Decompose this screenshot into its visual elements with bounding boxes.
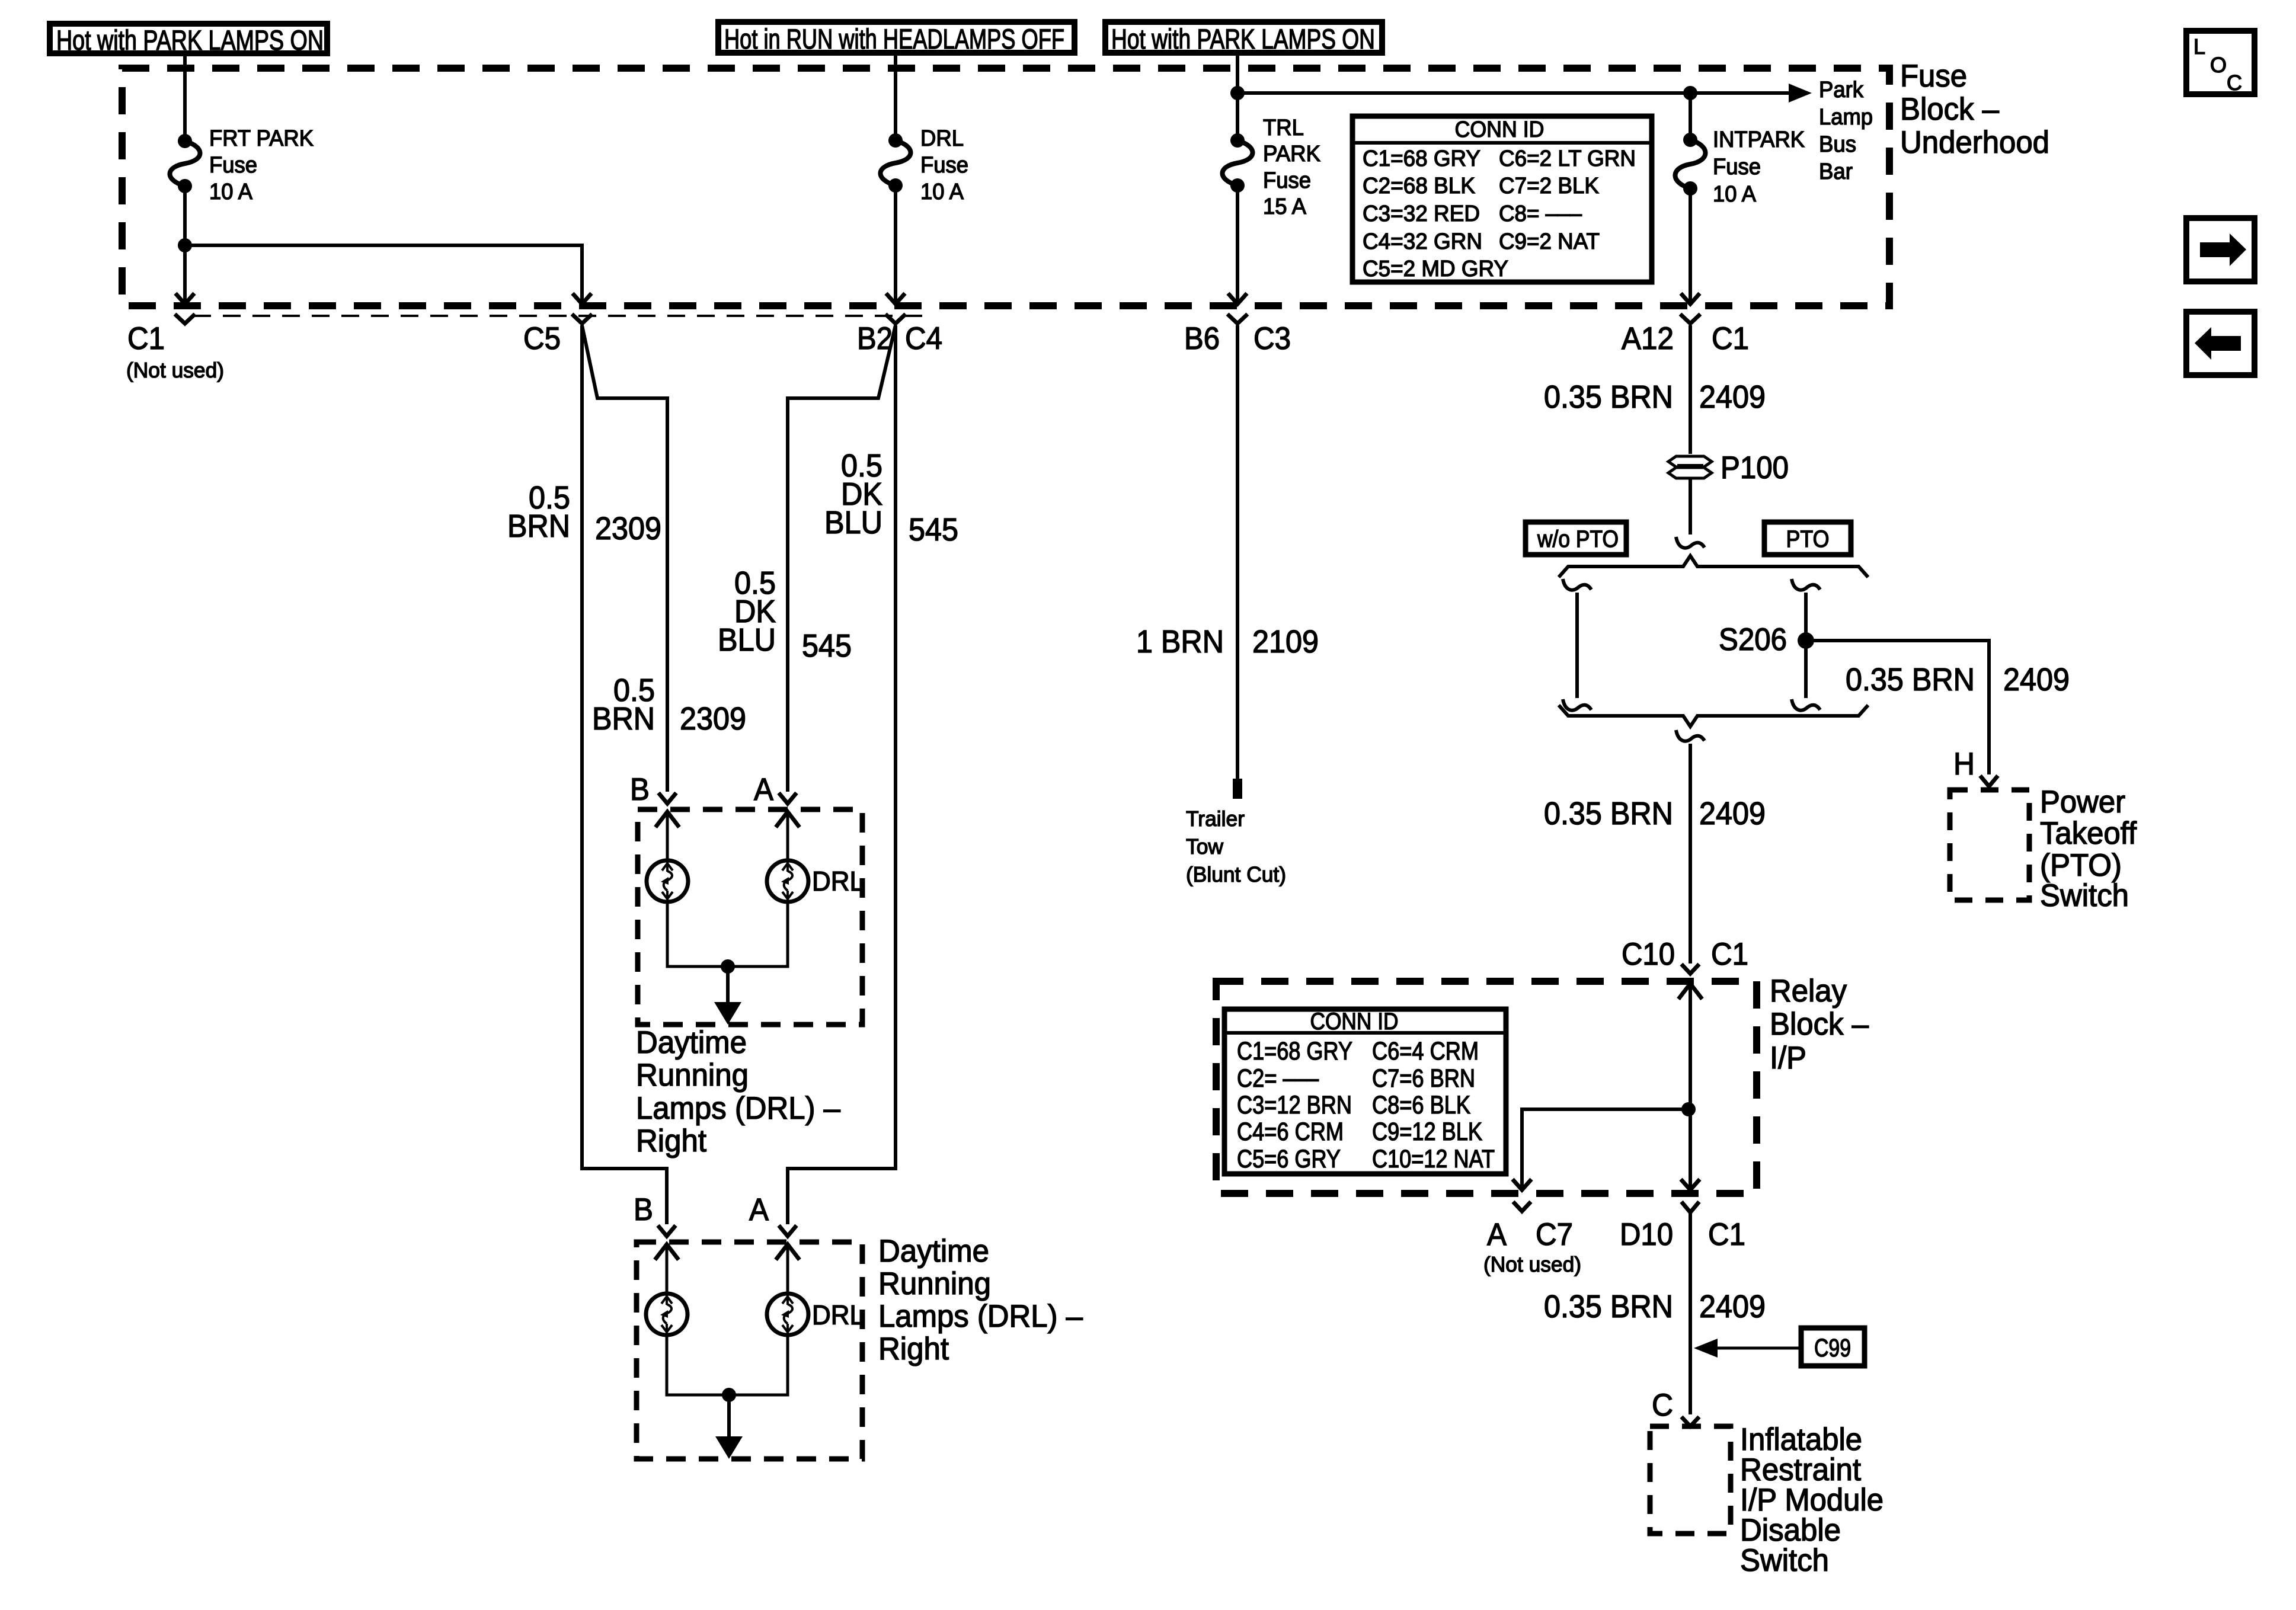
wire break hook above option brace <box>1676 537 1705 548</box>
svg-text:C2= –––: C2= ––– <box>1237 1064 1319 1093</box>
wire: relay block internal feed from C10 <box>1678 984 1702 999</box>
fuse block - underhood dashed outline <box>122 68 1889 306</box>
svg-text:0.35 BRN: 0.35 BRN <box>1846 662 1975 697</box>
lamp bulb A / DRL (upper unit) <box>767 860 808 902</box>
svg-text:1 BRN: 1 BRN <box>1136 624 1224 660</box>
svg-text:Switch: Switch <box>2040 878 2129 913</box>
ground arrow (lower DRL) <box>727 1395 731 1439</box>
svg-text:C8=6 BLK: C8=6 BLK <box>1372 1091 1470 1119</box>
svg-text:C1=68 GRY: C1=68 GRY <box>1363 146 1480 171</box>
junction: park lamp bus bar tap <box>1230 86 1245 100</box>
junction: branch to C5 <box>178 238 192 252</box>
wire: bus bar down to INTPARK fuse <box>1689 93 1692 140</box>
svg-text:2409: 2409 <box>2003 662 2070 697</box>
fuse: TRL PARK Fuse 15 A <box>1230 133 1245 148</box>
svg-text:2409: 2409 <box>1699 796 1766 831</box>
svg-text:CONN ID: CONN ID <box>1310 1009 1399 1035</box>
wire: DRL fuse output down to C4 <box>894 185 897 303</box>
connector C1 at fuse block edge (not used) <box>175 293 194 304</box>
blunt cut end cap <box>1233 779 1242 799</box>
svg-text:C4=6 CRM: C4=6 CRM <box>1237 1118 1344 1146</box>
svg-text:Fuse: Fuse <box>1263 168 1311 193</box>
svg-text:2309: 2309 <box>595 511 661 546</box>
svg-text:BRN: BRN <box>592 701 655 737</box>
svg-text:PARK: PARK <box>1263 142 1320 167</box>
harness connector thin dashed line below fuse block <box>193 315 923 317</box>
wire: C4 long vertical (0.5 DK BLU 545) down right side <box>788 325 896 1224</box>
svg-text:10 A: 10 A <box>920 180 964 204</box>
svg-text:C3=12 BRN: C3=12 BRN <box>1237 1091 1352 1119</box>
splice S206 <box>1798 632 1814 649</box>
svg-text:C7: C7 <box>1536 1217 1573 1252</box>
svg-text:C1: C1 <box>1711 937 1748 972</box>
svg-text:0.35 BRN: 0.35 BRN <box>1544 1289 1673 1324</box>
wire: park lamp bus bar <box>1237 91 1792 95</box>
svg-text:Bus: Bus <box>1819 132 1856 157</box>
wire: feed from right Hot box into fuse block <box>1236 53 1239 140</box>
svg-text:DRL: DRL <box>920 126 964 151</box>
wire: TRL PARK fuse output down to C3 <box>1236 185 1239 303</box>
wire: C3 down to trailer tow blunt cut (1 BRN 2109) <box>1236 325 1239 780</box>
PTO branch hook bottom <box>1792 699 1820 710</box>
option merge bottom brace <box>1559 705 1868 726</box>
svg-text:INTPARK: INTPARK <box>1713 127 1805 152</box>
svg-text:0.35 BRN: 0.35 BRN <box>1544 379 1673 415</box>
svg-text:C9=12 BLK: C9=12 BLK <box>1372 1118 1482 1146</box>
svg-text:Fuse: Fuse <box>1713 155 1761 180</box>
svg-text:Daytime: Daytime <box>878 1234 989 1269</box>
wire: feed from Hot in RUN box into fuse block <box>894 53 897 140</box>
wire: lamp returns join (lower DRL) <box>667 1334 788 1395</box>
power feed label box: Hot with PARK LAMPS ON (right) <box>1105 22 1382 53</box>
svg-text:H: H <box>1953 747 1975 782</box>
LOC reference box <box>2186 31 2255 94</box>
svg-text:C5: C5 <box>523 321 561 356</box>
arrow from C99 to wire <box>1716 1347 1801 1350</box>
connector B2/C4 at fuse block edge <box>886 293 905 304</box>
svg-text:B6: B6 <box>1184 321 1220 356</box>
svg-text:10 A: 10 A <box>209 180 253 204</box>
left arrow reference box <box>2186 312 2255 375</box>
wire: PTO branch through S206 <box>1804 593 1808 698</box>
option label box: PTO <box>1764 522 1851 555</box>
svg-text:(Blunt Cut): (Blunt Cut) <box>1186 862 1286 886</box>
svg-text:C6=2 LT GRN: C6=2 LT GRN <box>1499 146 1636 171</box>
lamp bulb B (upper DRL) <box>647 860 688 902</box>
svg-text:Running: Running <box>878 1266 991 1301</box>
in-line connector C99 label box <box>1801 1328 1865 1366</box>
svg-text:A: A <box>749 1192 769 1227</box>
wire: S206 to PTO switch (0.35 BRN 2409) <box>1806 641 1989 774</box>
svg-text:P100: P100 <box>1721 450 1789 485</box>
svg-text:Lamp: Lamp <box>1819 105 1873 130</box>
svg-text:DRL: DRL <box>812 1299 864 1330</box>
arrow to relay bottom edge (D10 branch) <box>1681 1179 1700 1190</box>
wire: w/o PTO branch <box>1575 593 1579 698</box>
svg-text:Power: Power <box>2040 785 2125 820</box>
svg-text:C5=6 GRY: C5=6 GRY <box>1237 1145 1341 1173</box>
svg-text:D10: D10 <box>1620 1217 1673 1252</box>
svg-text:C: C <box>1652 1388 1673 1423</box>
svg-text:C6=4 CRM: C6=4 CRM <box>1372 1037 1479 1065</box>
fuse: DRL Fuse 10 A <box>888 133 903 148</box>
option label box: w/o PTO <box>1526 522 1626 555</box>
daytime running lamps (DRL) right - lower unit dashed box <box>637 1242 862 1459</box>
svg-text:C8= –––: C8= ––– <box>1499 201 1582 226</box>
svg-text:C7=6 BRN: C7=6 BRN <box>1372 1064 1475 1093</box>
wire: D10 down to disable switch (0.35 BRN 2409) <box>1689 1216 1692 1414</box>
wire: lamp returns join (upper DRL) <box>667 901 788 966</box>
svg-text:C3: C3 <box>1253 321 1291 356</box>
svg-text:Hot in RUN with HEADLAMPS OFF: Hot in RUN with HEADLAMPS OFF <box>724 23 1064 55</box>
connector A12/C1 at fuse block edge <box>1681 293 1700 304</box>
svg-text:Block –: Block – <box>1900 92 1999 127</box>
lamp bulb B (lower DRL) <box>646 1294 687 1335</box>
svg-text:DRL: DRL <box>812 866 864 897</box>
svg-text:10 A: 10 A <box>1713 182 1757 207</box>
svg-text:Switch: Switch <box>1740 1543 1829 1578</box>
wire: branch from FRT PARK fuse to C5 <box>185 245 582 303</box>
svg-text:Park: Park <box>1819 78 1864 103</box>
CONN ID table - relay block I/P <box>1224 1009 1506 1174</box>
svg-text:Takeoff: Takeoff <box>2040 816 2137 851</box>
svg-text:2309: 2309 <box>680 701 746 737</box>
svg-text:C2=68 BLK: C2=68 BLK <box>1363 174 1475 199</box>
svg-text:2409: 2409 <box>1699 379 1766 415</box>
junction: lower DRL ground join <box>722 1388 736 1402</box>
arrowhead to Park Lamp Bus Bar <box>1789 84 1812 103</box>
wire: A12 down to P100 (0.35 BRN 2409) <box>1689 329 1692 454</box>
wire: feed from left Hot box into fuse block <box>183 53 187 141</box>
svg-text:Right: Right <box>636 1124 706 1158</box>
svg-text:A12: A12 <box>1622 321 1674 356</box>
wire: internal branch to C7 (not used) <box>1522 1109 1689 1188</box>
CONN ID table - fuse block underhood <box>1352 116 1652 282</box>
svg-text:C1: C1 <box>1708 1217 1745 1252</box>
relay block - I/P dashed outline <box>1216 981 1757 1193</box>
svg-text:Hot with PARK LAMPS ON: Hot with PARK LAMPS ON <box>56 24 324 56</box>
svg-text:C4=32 GRN: C4=32 GRN <box>1363 229 1482 254</box>
svg-text:O: O <box>2210 53 2227 77</box>
svg-text:C7=2 BLK: C7=2 BLK <box>1499 174 1599 199</box>
svg-text:Relay: Relay <box>1770 974 1847 1009</box>
svg-text:(Not used): (Not used) <box>1483 1252 1581 1276</box>
svg-text:Fuse: Fuse <box>1900 59 1967 94</box>
svg-text:C3=32 RED: C3=32 RED <box>1363 201 1480 226</box>
svg-text:15 A: 15 A <box>1263 194 1307 219</box>
inflatable restraint I/P module disable switch dashed box <box>1650 1426 1731 1534</box>
svg-text:Running: Running <box>636 1058 749 1093</box>
arrow to relay bottom edge (C7 branch) <box>1512 1179 1531 1190</box>
svg-text:PTO: PTO <box>1786 526 1830 552</box>
ground arrow (upper DRL) <box>726 966 730 1004</box>
svg-text:Lamps (DRL) –: Lamps (DRL) – <box>636 1091 840 1126</box>
connector A/C7 below relay block (not used) <box>1513 1202 1531 1211</box>
svg-text:545: 545 <box>802 628 852 664</box>
svg-text:2109: 2109 <box>1252 624 1319 660</box>
grommet P100 <box>1668 456 1712 467</box>
svg-text:Trailer: Trailer <box>1186 806 1245 831</box>
svg-text:Tow: Tow <box>1186 834 1224 859</box>
svg-text:Right: Right <box>878 1331 949 1366</box>
svg-text:Block –: Block – <box>1770 1007 1869 1042</box>
svg-text:Bar: Bar <box>1819 159 1853 184</box>
svg-text:0.35 BRN: 0.35 BRN <box>1544 796 1673 831</box>
wire: C5 long vertical (0.5 BRN 2309) down left side <box>582 325 667 1224</box>
wire break hook below merge brace <box>1676 730 1705 741</box>
svg-text:Underhood: Underhood <box>1900 125 2049 160</box>
svg-text:TRL: TRL <box>1263 116 1304 140</box>
svg-text:Fuse: Fuse <box>920 153 968 178</box>
svg-text:545: 545 <box>909 512 958 548</box>
wire: P100 down to option split <box>1689 479 1692 534</box>
svg-text:A: A <box>754 772 774 807</box>
svg-text:C: C <box>2227 71 2242 95</box>
wire: INTPARK fuse output down to C1 <box>1689 188 1692 303</box>
connector D10/C1 below relay block <box>1681 1202 1699 1212</box>
svg-text:(Not used): (Not used) <box>126 358 224 382</box>
svg-text:L: L <box>2193 34 2205 59</box>
svg-text:Lamps (DRL) –: Lamps (DRL) – <box>878 1299 1083 1334</box>
wire: C5 branch to first DRL unit pin B <box>582 325 667 792</box>
option split top brace <box>1559 556 1868 577</box>
svg-text:w/o PTO: w/o PTO <box>1537 526 1619 552</box>
wire: C4 branch to first DRL unit pin A <box>788 325 896 792</box>
fuse: INTPARK Fuse 10 A <box>1683 133 1697 147</box>
svg-text:BRN: BRN <box>507 508 570 544</box>
svg-text:2409: 2409 <box>1699 1289 1766 1324</box>
svg-text:A: A <box>1487 1217 1507 1252</box>
svg-text:C5=2 MD GRY: C5=2 MD GRY <box>1363 257 1508 281</box>
junction: INTPARK tap on bus bar <box>1683 86 1697 100</box>
junction: upper DRL ground join <box>721 959 735 974</box>
svg-text:BLU: BLU <box>718 622 776 658</box>
svg-text:I/P: I/P <box>1770 1041 1806 1076</box>
svg-text:C10=12 NAT: C10=12 NAT <box>1372 1145 1495 1173</box>
wire: FRT PARK fuse output down to C1 <box>183 186 187 303</box>
daytime running lamps (DRL) right - upper unit dashed box <box>638 809 862 1025</box>
svg-text:B: B <box>634 1192 653 1227</box>
w/o PTO branch hook bottom <box>1563 699 1591 710</box>
svg-text:C1=68 GRY: C1=68 GRY <box>1237 1037 1352 1065</box>
svg-text:C9=2 NAT: C9=2 NAT <box>1499 229 1600 254</box>
svg-text:CONN ID: CONN ID <box>1455 117 1544 142</box>
connector B6/C3 at fuse block edge <box>1228 293 1247 304</box>
svg-text:C1: C1 <box>1712 321 1749 356</box>
svg-text:C99: C99 <box>1814 1334 1851 1362</box>
svg-text:B2: B2 <box>857 321 893 356</box>
svg-text:Hot with PARK LAMPS ON: Hot with PARK LAMPS ON <box>1111 23 1375 55</box>
svg-text:Daytime: Daytime <box>636 1025 747 1060</box>
power takeoff (PTO) switch dashed box <box>1950 790 2029 900</box>
fuse: FRT PARK Fuse 10 A <box>178 134 192 148</box>
power feed label box: Hot in RUN with HEADLAMPS OFF <box>718 22 1075 53</box>
svg-text:Fuse: Fuse <box>209 153 257 178</box>
svg-text:C10: C10 <box>1622 937 1675 972</box>
connector C5 at fuse block edge <box>573 293 591 304</box>
PTO branch hook top <box>1792 579 1820 590</box>
svg-text:B: B <box>630 772 650 807</box>
svg-text:C1: C1 <box>127 321 165 356</box>
svg-text:C4: C4 <box>905 321 942 356</box>
lamp bulb A / DRL (lower unit) <box>767 1294 808 1335</box>
svg-text:BLU: BLU <box>824 505 882 540</box>
w/o PTO branch hook top <box>1563 579 1591 590</box>
svg-text:S206: S206 <box>1719 622 1787 657</box>
power feed label box: Hot with PARK LAMPS ON (left) <box>50 24 327 53</box>
svg-text:FRT PARK: FRT PARK <box>209 126 314 151</box>
right arrow reference box <box>2186 218 2255 281</box>
wire: option merge down to relay block C10 (0.35 BRN 2409) <box>1689 744 1692 964</box>
junction inside relay block <box>1681 1102 1696 1116</box>
